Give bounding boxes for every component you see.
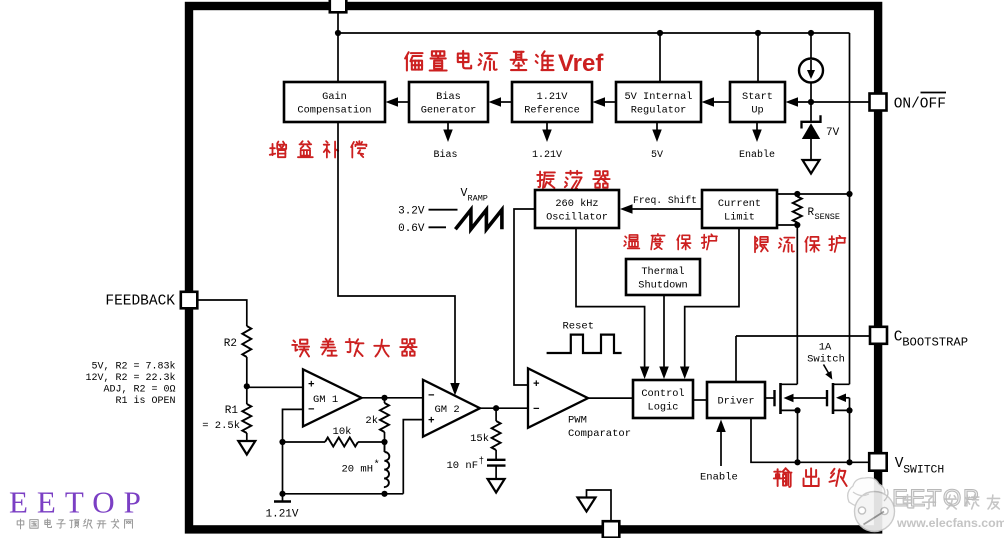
- svg-text:GM 2: GM 2: [435, 404, 460, 416]
- resistor 15k: [495, 408, 497, 421]
- svg-text:5V, R2 = 7.83k: 5V, R2 = 7.83k: [91, 361, 175, 373]
- wire: rail down to 5V Internal Regulator: [659, 33, 661, 82]
- svg-text:15k: 15k: [470, 433, 489, 445]
- svg-text:Enable: Enable: [739, 149, 775, 161]
- svg-text:Driver: Driver: [717, 396, 754, 408]
- svg-text:Control: Control: [641, 388, 684, 400]
- svg-text:V: V: [461, 187, 468, 200]
- current source I1: [799, 59, 823, 83]
- wire: rail down to Start Up: [757, 33, 759, 82]
- svg-text:SWITCH: SWITCH: [903, 465, 944, 477]
- svg-text:1.21V: 1.21V: [537, 91, 569, 103]
- svg-text:12V, R2 = 22.3k: 12V, R2 = 22.3k: [85, 372, 175, 384]
- wire: Regulator to Reference: [603, 101, 616, 103]
- block: Start Up: [730, 82, 785, 122]
- wire: Thermal Shutdown to Control Logic: [663, 295, 665, 373]
- pin: VIN (top): [330, 0, 347, 12]
- pin: CBOOTSTRAP: [870, 327, 887, 344]
- svg-text:Up: Up: [751, 105, 763, 117]
- node: rail junctions: [279, 491, 285, 497]
- block: Thermal Shutdown: [626, 259, 700, 295]
- svg-text:FEEDBACK: FEEDBACK: [105, 294, 175, 310]
- svg-text:3.2V: 3.2V: [398, 206, 425, 218]
- svg-text:R1 is OPEN: R1 is OPEN: [115, 395, 175, 407]
- svg-text:1.21V: 1.21V: [532, 150, 562, 161]
- node: RSENSE bottom junction: [794, 222, 800, 228]
- svg-text:Regulator: Regulator: [631, 105, 687, 117]
- caption: oscillator (red): [537, 172, 555, 188]
- svg-text:Comparator: Comparator: [568, 428, 631, 440]
- node: RSENSE top junction: [794, 191, 800, 197]
- node: junction at x=660: [657, 30, 663, 36]
- svg-text:Oscillator: Oscillator: [546, 212, 608, 224]
- wire: ON/OFF pin to Start Up with arrow: [793, 101, 869, 103]
- svg-text:R: R: [808, 207, 815, 219]
- wire: Oscillator bottom to Control Logic: [576, 228, 645, 373]
- svg-text:Gain: Gain: [322, 91, 347, 103]
- transistor Q1 (driver-side switch): [765, 397, 775, 399]
- node: Q1 source on rail: [794, 459, 800, 465]
- svg-text:−: −: [428, 390, 435, 402]
- wire: divider to GM1 + input: [247, 386, 303, 388]
- resistor RSENSE: [793, 197, 802, 223]
- svg-text:Generator: Generator: [421, 105, 477, 117]
- svg-text:Current: Current: [718, 198, 761, 210]
- node: junction at x=758: [755, 30, 761, 36]
- op-amp GM2: [423, 380, 480, 437]
- svg-text:20 mH: 20 mH: [341, 464, 373, 476]
- svg-text:PWM: PWM: [568, 415, 587, 427]
- svg-text:Limit: Limit: [724, 212, 755, 224]
- wire: 5V output arrow: [656, 122, 658, 136]
- wire: GM2 output to PWM comparator: [480, 407, 528, 409]
- node: GM1 output junction: [381, 395, 387, 401]
- waveform: reset pulses: [547, 335, 622, 353]
- svg-text:Reference: Reference: [524, 105, 580, 117]
- svg-text:Start: Start: [742, 91, 773, 103]
- node: VIN vertical junction: [846, 191, 852, 197]
- block: Gain Compensation: [284, 82, 385, 122]
- svg-text:10 nF: 10 nF: [446, 460, 478, 472]
- pin: GND (bottom): [603, 521, 620, 538]
- waveform: sawtooth ramp: [455, 210, 502, 229]
- 1.21V reference stub: [282, 494, 284, 501]
- svg-text:R1: R1: [225, 405, 239, 417]
- watermark: chinese site name: [17, 519, 24, 529]
- caption: thermal protection (red): [624, 235, 639, 249]
- svg-text:RAMP: RAMP: [468, 194, 488, 204]
- svg-text:2k: 2k: [365, 415, 378, 427]
- wire: Start Up to Regulator: [712, 101, 730, 103]
- svg-text:Vref: Vref: [558, 50, 604, 77]
- caption: bias current / reference Vref (red): [405, 52, 422, 70]
- svg-text:ADJ, R2 = 0Ω: ADJ, R2 = 0Ω: [103, 385, 175, 396]
- resistor R1: [246, 386, 248, 404]
- wire: Current Limit right to RSENSE top and VIN vertical: [777, 193, 850, 195]
- svg-text:Thermal: Thermal: [641, 266, 684, 278]
- svg-text:+: +: [308, 380, 315, 392]
- node: 10k left junction: [279, 439, 285, 445]
- node: 2k bottom junction: [381, 439, 387, 445]
- svg-text:Reset: Reset: [563, 321, 595, 333]
- svg-text:www.elecfans.com: www.elecfans.com: [896, 516, 1004, 530]
- watermark: elecfans chinese: [903, 495, 999, 509]
- svg-text:R2: R2: [224, 338, 237, 350]
- wire: VIN rail corner down right side to switch drain: [849, 33, 851, 384]
- svg-text:5V Internal: 5V Internal: [625, 91, 693, 103]
- svg-text:EETOP: EETOP: [9, 485, 150, 520]
- svg-text:BOOTSTRAP: BOOTSTRAP: [902, 336, 968, 350]
- wire: rail down to current source: [810, 33, 812, 58]
- zener diode D1 7V: [802, 115, 821, 128]
- svg-text:−: −: [308, 405, 315, 417]
- wire: GM1 output to GM2: [362, 397, 424, 399]
- wire: Driver bottom to VSWITCH rail: [751, 418, 869, 462]
- resistor 2k: [384, 398, 386, 403]
- wire: RSENSE bottom stub to Current Limit: [777, 224, 797, 226]
- wire: Bias output arrow: [447, 122, 449, 136]
- resistor 10k: [283, 441, 326, 443]
- ground below R1: [238, 441, 255, 455]
- wire: Current Limit bottom to Control Logic: [685, 228, 739, 373]
- wire: bootstrap feed down to Driver: [735, 336, 737, 382]
- node: junction at x=811: [808, 30, 814, 36]
- block: 5V Internal Regulator: [616, 82, 701, 122]
- pin: VSWITCH: [869, 453, 887, 471]
- node: GM2 output junction: [493, 405, 499, 411]
- caption: output stage (red): [774, 468, 792, 487]
- svg-text:ON/OFF: ON/OFF: [894, 97, 946, 113]
- block: 260 kHz Oscillator: [535, 190, 619, 228]
- wire: GM1 minus input to 1.21V rail: [283, 409, 304, 493]
- wire: Enable output arrow: [756, 122, 758, 136]
- svg-text:Logic: Logic: [648, 402, 679, 414]
- wire: FEEDBACK pin to R2: [197, 300, 247, 326]
- node: junction ON/OFF wire: [808, 99, 814, 105]
- svg-text:= 2.5k: = 2.5k: [202, 420, 240, 432]
- caption: current limit protection (red): [755, 237, 768, 253]
- block: Bias Generator: [409, 82, 488, 122]
- wire: current source to ON/OFF node: [810, 83, 812, 122]
- capacitor 10nF: [487, 459, 506, 461]
- wire: PWM output to Control Logic: [588, 397, 633, 399]
- svg-text:Shutdown: Shutdown: [638, 280, 687, 292]
- caption: gain compensation (red): [270, 142, 286, 158]
- svg-text:1A: 1A: [819, 342, 832, 354]
- svg-text:†: †: [479, 455, 485, 466]
- svg-text:10k: 10k: [333, 426, 352, 438]
- wire: RSENSE bottom down to switch drain: [796, 225, 798, 384]
- node: junction VIN rail at x=338: [335, 30, 341, 36]
- wire: Current Limit to Oscillator (Freq. Shift): [630, 208, 702, 210]
- wire: VIN horizontal rail y=33: [338, 32, 850, 34]
- pin: ON/OFF: [870, 94, 887, 111]
- wire: Reference to Bias Generator: [499, 101, 512, 103]
- ground below zener: [803, 160, 820, 174]
- svg-text:−: −: [533, 404, 540, 416]
- resistor R2: [242, 326, 251, 357]
- svg-text:7V: 7V: [826, 127, 840, 139]
- svg-text:Bias: Bias: [433, 149, 457, 161]
- wire: rail up to GM2 + input: [403, 420, 423, 494]
- svg-text:Enable: Enable: [700, 472, 738, 484]
- wire: VIN pin down to Gain Compensation: [337, 10, 339, 82]
- wire: CBOOTSTRAP line: [736, 335, 870, 337]
- caption: error amplifier (red): [292, 340, 309, 357]
- svg-text:Switch: Switch: [807, 354, 845, 366]
- op-amp GM1: [303, 369, 362, 426]
- IC boundary frame: [189, 6, 878, 529]
- svg-text:1.21V: 1.21V: [266, 509, 299, 521]
- pin: FEEDBACK: [181, 292, 198, 309]
- ground symbol bottom: [578, 498, 596, 512]
- svg-text:Compensation: Compensation: [297, 105, 371, 117]
- svg-text:+: +: [428, 415, 435, 427]
- wire: gain compensation path into GM2: [338, 122, 455, 387]
- block: 1.21V Reference: [512, 82, 592, 122]
- svg-text:Freq. Shift: Freq. Shift: [633, 195, 697, 206]
- wire: oscillator ramp to PWM + input: [514, 209, 535, 385]
- watermark: elecfans logo circle: [848, 478, 895, 532]
- node: Q2 source on rail: [846, 459, 852, 465]
- svg-text:Bias: Bias: [436, 91, 461, 103]
- wire: Bias Generator to Gain Compensation: [396, 101, 409, 103]
- svg-text:GM 1: GM 1: [313, 394, 338, 406]
- wire: ground pin to ground symbol: [587, 490, 612, 521]
- wire: Control Logic to Driver: [693, 399, 707, 401]
- svg-text:260 kHz: 260 kHz: [555, 198, 598, 210]
- svg-text:+: +: [533, 379, 540, 391]
- svg-text:*: *: [374, 459, 380, 471]
- block: Driver: [707, 382, 765, 418]
- node: divider junction: [244, 383, 250, 389]
- wire: Enable arrow into Driver: [720, 425, 722, 466]
- wire: 1.21V output arrow: [546, 122, 548, 136]
- svg-text:5V: 5V: [651, 150, 663, 161]
- op-amp PWM comparator: [528, 368, 588, 427]
- svg-text:0.6V: 0.6V: [398, 223, 425, 235]
- block: Current Limit: [702, 190, 777, 228]
- inductor 20mH: [384, 442, 386, 452]
- wire: 1.21V bottom rail: [283, 493, 404, 495]
- transistor Q2 (1A switch): [826, 390, 828, 406]
- ground below 10nF: [488, 479, 505, 493]
- svg-text:SENSE: SENSE: [815, 212, 841, 222]
